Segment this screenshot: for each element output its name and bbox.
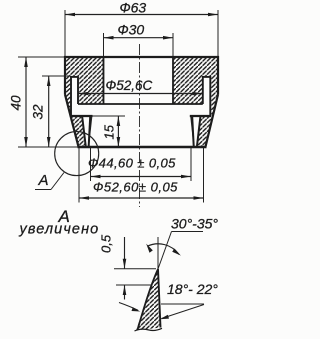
dim Ф52,60 line (79, 197, 204, 199)
dim 15 arrows (117, 116, 121, 126)
dim 0,5 arrow up (123, 285, 127, 295)
left lip cap (70, 115, 92, 117)
right groove wall inner knife (192, 117, 194, 146)
dim Ф30 line (104, 37, 174, 39)
dim 40 line (25, 57, 27, 147)
dim Ф30 extension left (103, 33, 105, 56)
right lip cap (190, 115, 211, 117)
label 18-22 underline leader (161, 303, 204, 305)
dim 15 extension (93, 115, 126, 117)
left groove wall outer (82, 117, 86, 146)
dim 32 extension (42, 75, 71, 77)
dim Ф44,60 extension right (190, 148, 192, 181)
dim Ф52,60 extension right (203, 148, 205, 203)
dim Ф30 arrows (104, 36, 114, 40)
bore wall left (103, 57, 105, 104)
left skirt inner wall (70, 76, 72, 116)
svg-text:Ф44,60 ± 0,05: Ф44,60 ± 0,05 (88, 156, 176, 171)
dim 0,5 line lower (124, 285, 126, 300)
hatch left wall section (65, 57, 104, 146)
right outer wall (217, 56, 219, 95)
detail callout circle A (55, 132, 99, 176)
leader to right edge (162, 305, 205, 319)
dim Ф63 line (65, 14, 218, 16)
svg-text:18°- 22°: 18°- 22° (167, 281, 218, 297)
dim Ф52,6C arrows (79, 92, 89, 96)
dim 15 line (117, 116, 119, 147)
svg-text:30°-35°: 30°-35° (171, 216, 218, 232)
callout underline (35, 189, 51, 191)
right skirt inner wall (209, 76, 211, 116)
detail wedge hatch (136, 269, 161, 331)
dim 0,5 arrow down (123, 259, 127, 269)
svg-text:0,5: 0,5 (99, 234, 114, 253)
detail wedge bottom break line (135, 328, 163, 331)
left step horizontal (70, 76, 79, 78)
right step horizontal (202, 76, 211, 78)
dim Ф52,60 arrows (79, 196, 89, 200)
cavity ceiling line (78, 103, 203, 105)
dim 0,5 ext top (114, 268, 156, 270)
dim Ф44,60 arrows (91, 175, 101, 179)
left outer wall (64, 56, 66, 95)
dim Ф63 extension left (64, 10, 66, 56)
svg-text:А: А (38, 172, 49, 189)
knife prong left (89, 116, 92, 146)
arrowhead on right edge (160, 315, 169, 320)
dim 32 line (48, 76, 50, 147)
arc arrowhead right (172, 249, 181, 256)
dim Ф44,60 extension left (90, 148, 92, 181)
svg-text:32: 32 (31, 104, 46, 120)
left groove wall inner knife (89, 117, 91, 146)
dim Ф52,60 extension left (78, 148, 80, 203)
svg-text:увеличено: увеличено (19, 222, 100, 238)
left outer taper (65, 95, 79, 147)
leader arc to left edge (119, 303, 138, 311)
detail vertical reference line (157, 237, 159, 269)
right boss outer wall (202, 77, 204, 104)
detail wedge left edge (138, 269, 159, 330)
dim Ф30 extension right (172, 33, 174, 56)
svg-text:Ф30: Ф30 (118, 22, 145, 38)
dim 0,5 ext bottom (116, 284, 152, 286)
dim 40 arrows (24, 57, 28, 67)
bottom thin extension to left (18, 146, 78, 148)
arrowhead on left edge (132, 307, 141, 311)
knife prong right (190, 116, 193, 146)
svg-text:15: 15 (102, 124, 117, 139)
svg-text:Ф52,60± 0,05: Ф52,60± 0,05 (93, 180, 178, 195)
detail chamfer extension line (158, 232, 172, 270)
svg-text:Ф52,6С: Ф52,6С (106, 78, 153, 93)
detail angle arc 30-35 (147, 244, 179, 255)
dim Ф63 arrows (65, 13, 75, 17)
dim Ф63 extension right (217, 10, 219, 56)
arc arrowhead left (146, 244, 153, 253)
bottom edge (78, 146, 207, 148)
dim 0,5 line upper (124, 237, 126, 269)
svg-text:40: 40 (9, 95, 24, 111)
top face (64, 56, 219, 58)
right outer taper (206, 95, 219, 147)
right groove wall outer (197, 117, 200, 146)
callout leader (51, 173, 64, 190)
centerline axis (139, 44, 141, 207)
detail wedge right edge (158, 269, 161, 328)
dim 40 top extension (18, 56, 64, 58)
bore wall right (172, 57, 174, 104)
label 30-35 underline leader (172, 231, 204, 233)
left boss outer wall (77, 77, 79, 104)
dim 32 arrows (47, 76, 51, 86)
svg-text:Ф63: Ф63 (120, 0, 147, 16)
hatch right wall section (173, 57, 218, 146)
dim Ф44,60 line (91, 176, 192, 178)
dim Ф52,6C line (79, 93, 203, 95)
